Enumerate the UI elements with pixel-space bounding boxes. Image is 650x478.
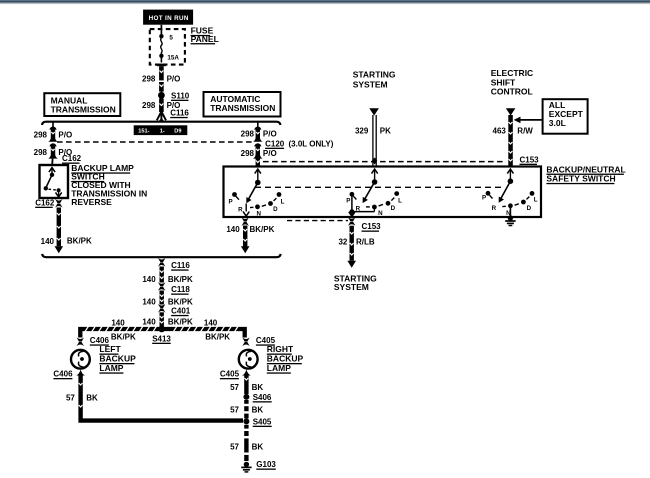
svg-text:P: P bbox=[482, 195, 486, 202]
svg-text:N: N bbox=[256, 210, 261, 217]
wire 140 BK/PK seg1 bbox=[160, 267, 164, 283]
dashed line (connector boundary, middle) bbox=[263, 161, 506, 163]
wire 140 BK/PK (left, switch to bus) bbox=[57, 208, 61, 247]
switch 3 position labels P R N D L bbox=[482, 195, 538, 217]
wire 140 BK/PK seg2 bbox=[160, 291, 164, 305]
switch gang 1 (left, backup lamp feed) bbox=[232, 169, 281, 216]
svg-text:PANEL: PANEL bbox=[191, 34, 219, 44]
svg-text:S110: S110 bbox=[171, 91, 190, 100]
svg-text:TRANSMISSION: TRANSMISSION bbox=[210, 103, 275, 113]
node STARTING SYSTEM (bottom) bbox=[334, 274, 377, 293]
svg-text:C153: C153 bbox=[362, 222, 382, 231]
svg-text:SYSTEM: SYSTEM bbox=[353, 80, 388, 90]
bus wire (lower) bbox=[42, 254, 280, 257]
svg-text:5: 5 bbox=[169, 34, 173, 41]
svg-text:S406: S406 bbox=[253, 393, 272, 402]
svg-text:BK/PK: BK/PK bbox=[111, 333, 136, 342]
arrow from ALL EXCEPT box to wire bbox=[514, 117, 543, 124]
svg-text:N: N bbox=[378, 210, 383, 217]
splice S110 bbox=[158, 91, 190, 101]
wire 140 BK/PK down to bus bbox=[241, 226, 250, 254]
svg-text:140: 140 bbox=[142, 298, 156, 307]
value label 57 BK bbox=[230, 383, 263, 392]
connector C401 bbox=[158, 304, 191, 316]
connector C162 (inline) bbox=[48, 143, 57, 165]
mechanical linkage dashed line bbox=[255, 186, 503, 188]
connector C116 (top) bbox=[157, 109, 190, 122]
left backup lamp bbox=[71, 350, 90, 369]
value label 298 P/O (upper) bbox=[142, 74, 180, 83]
svg-text:329: 329 bbox=[355, 126, 369, 135]
svg-text:LEFT: LEFT bbox=[99, 344, 121, 354]
ground G103 bbox=[241, 460, 276, 472]
svg-text:S405: S405 bbox=[253, 417, 272, 426]
svg-text:L: L bbox=[281, 198, 285, 205]
wire 298 P/O left drop from bus bbox=[48, 122, 57, 142]
svg-text:C162: C162 bbox=[35, 198, 55, 207]
value label 298 P/O (lower) bbox=[142, 101, 180, 110]
svg-text:R: R bbox=[356, 206, 361, 213]
connector C153 (middle output) bbox=[348, 217, 381, 232]
value label 140 BK/PK bbox=[142, 317, 193, 326]
connector C162 (below switch) bbox=[35, 198, 62, 208]
svg-text:P/O: P/O bbox=[263, 129, 277, 138]
connector C120 bbox=[253, 139, 334, 158]
fuse output node bbox=[159, 54, 163, 63]
switch gang 3 (right, electric shift control) bbox=[486, 169, 535, 217]
value label 140 BK/PK bbox=[142, 275, 193, 284]
svg-text:TRANSMISSION: TRANSMISSION bbox=[51, 105, 116, 115]
svg-text:D: D bbox=[273, 206, 278, 213]
svg-text:R: R bbox=[492, 205, 497, 212]
node ELECTRIC SHIFT CONTROL bbox=[491, 68, 534, 115]
value label 57 BK (left) bbox=[66, 393, 98, 402]
svg-text:140: 140 bbox=[226, 225, 240, 234]
title bar remnant bbox=[0, 0, 650, 5]
svg-text:C118: C118 bbox=[171, 285, 190, 294]
wire from HOT IN RUN to fuse bbox=[160, 25, 162, 35]
svg-text:1-: 1- bbox=[160, 129, 165, 135]
svg-text:R/LB: R/LB bbox=[356, 237, 375, 246]
wire 463 R/W bbox=[508, 115, 513, 167]
wire 298 P/O from fuse to splice S110 bbox=[157, 64, 166, 95]
backup/neutral safety switch label bbox=[546, 164, 625, 184]
switch 1 position labels P R N D L bbox=[229, 198, 285, 217]
value label 32 R/LB bbox=[338, 237, 374, 246]
fuse panel (dashed box) bbox=[150, 29, 185, 65]
value label 329 PK bbox=[355, 126, 391, 135]
connector C406 (top of left lamp) bbox=[77, 336, 110, 346]
svg-text:298: 298 bbox=[34, 131, 48, 140]
box MANUAL TRANSMISSION bbox=[44, 93, 120, 116]
value label 140 BK/PK (switch output) bbox=[226, 225, 274, 234]
ground (safety switch case) bbox=[505, 215, 515, 225]
svg-text:RIGHT: RIGHT bbox=[267, 344, 294, 354]
svg-text:S413: S413 bbox=[152, 334, 171, 343]
switch 2 position labels P R N D L bbox=[346, 198, 402, 217]
connector C118 bbox=[158, 282, 190, 295]
wire 140 BK/PK seg3 bbox=[160, 312, 164, 327]
value label 298 P/O (left lower) bbox=[34, 148, 73, 157]
value label 140 (left branch) bbox=[111, 318, 136, 341]
svg-text:BK/PK: BK/PK bbox=[168, 298, 193, 307]
value label 298 P/O (right lower) bbox=[241, 149, 277, 158]
splice S406 bbox=[243, 393, 272, 403]
svg-text:SAFETY SWITCH: SAFETY SWITCH bbox=[546, 174, 615, 184]
svg-text:D: D bbox=[527, 205, 532, 212]
wire 57 BK (left lamp to splice S405) bbox=[79, 375, 243, 421]
svg-text:140: 140 bbox=[41, 237, 55, 246]
circuit id box 151-1-D9 bbox=[134, 125, 188, 135]
svg-text:298: 298 bbox=[34, 148, 48, 157]
svg-text:(3.0L ONLY): (3.0L ONLY) bbox=[289, 139, 334, 148]
svg-text:BK/PK: BK/PK bbox=[250, 225, 275, 234]
svg-text:463: 463 bbox=[493, 126, 507, 135]
svg-text:R: R bbox=[238, 207, 243, 214]
svg-text:3.0L: 3.0L bbox=[549, 118, 566, 128]
connector C405 (bottom of right lamp) bbox=[220, 370, 251, 380]
wire (hatched distribution to both lamps) bbox=[80, 326, 244, 337]
wire 57 BK (S406 to S405, segmented) bbox=[243, 400, 249, 418]
svg-text:140: 140 bbox=[142, 275, 156, 284]
wire 57 BK (S405 to ground, segmented) bbox=[243, 425, 249, 461]
svg-text:140: 140 bbox=[111, 318, 125, 327]
svg-text:15A: 15A bbox=[167, 54, 179, 61]
svg-text:BK/PK: BK/PK bbox=[168, 275, 193, 284]
svg-text:32: 32 bbox=[338, 237, 347, 246]
svg-text:L: L bbox=[534, 197, 538, 204]
svg-text:C405: C405 bbox=[220, 370, 240, 379]
connector (switch1 output) bbox=[242, 217, 249, 226]
svg-text:D: D bbox=[391, 205, 396, 212]
value label 298 P/O (right upper) bbox=[241, 129, 277, 138]
svg-text:G103: G103 bbox=[256, 460, 276, 469]
svg-text:LAMP: LAMP bbox=[99, 363, 123, 373]
svg-text:BK/PK: BK/PK bbox=[67, 237, 92, 246]
svg-text:BK: BK bbox=[252, 442, 264, 451]
svg-text:298: 298 bbox=[241, 149, 255, 158]
svg-text:57: 57 bbox=[230, 383, 239, 392]
fuse pin 5 node bbox=[159, 34, 173, 41]
connector C116 (lower chain) bbox=[158, 258, 190, 271]
svg-text:L: L bbox=[398, 198, 402, 205]
svg-text:PK: PK bbox=[380, 126, 391, 135]
svg-text:140: 140 bbox=[204, 318, 218, 327]
svg-text:BK: BK bbox=[252, 405, 264, 414]
svg-text:C120: C120 bbox=[265, 139, 285, 148]
splice S413 bbox=[152, 326, 171, 344]
svg-text:P/O: P/O bbox=[58, 131, 72, 140]
backup lamp switch label bbox=[71, 163, 147, 207]
power source HOT IN RUN bbox=[143, 10, 193, 25]
backup/neutral safety switch box bbox=[224, 167, 542, 218]
svg-text:P/O: P/O bbox=[167, 74, 181, 83]
svg-text:P: P bbox=[229, 199, 233, 206]
svg-text:57: 57 bbox=[66, 393, 75, 402]
splice S405 bbox=[243, 417, 272, 427]
wire 32 R/LB bbox=[347, 226, 356, 268]
switch gang 2 (middle, starting system) bbox=[349, 169, 399, 216]
right backup lamp label bbox=[267, 344, 304, 373]
svg-text:C401: C401 bbox=[171, 307, 191, 316]
svg-text:SYSTEM: SYSTEM bbox=[334, 282, 369, 292]
wire 57 BK (right lamp to S406) bbox=[244, 375, 248, 395]
svg-text:298: 298 bbox=[142, 101, 156, 110]
connector label C162 bbox=[62, 154, 82, 164]
svg-text:57: 57 bbox=[230, 442, 239, 451]
box AUTOMATIC TRANSMISSION bbox=[204, 92, 281, 117]
backup lamp switch box bbox=[40, 165, 69, 198]
backup lamp switch contacts bbox=[44, 168, 62, 197]
wire 298 P/O from S110 to C116 bbox=[159, 99, 164, 113]
node STARTING SYSTEM (top) bbox=[353, 69, 396, 115]
fuse panel label bbox=[191, 26, 219, 45]
wire 298 P/O right drop from bus bbox=[253, 122, 262, 142]
svg-text:LAMP: LAMP bbox=[267, 363, 291, 373]
value label 463 R/W bbox=[493, 126, 534, 135]
box ALL EXCEPT 3.0L bbox=[543, 99, 588, 134]
wire 298 P/O to safety switch bbox=[256, 158, 260, 167]
svg-text:C153: C153 bbox=[520, 155, 540, 164]
svg-text:STARTING: STARTING bbox=[353, 69, 396, 79]
connector C405 (top of right lamp) bbox=[242, 336, 275, 346]
svg-text:57: 57 bbox=[230, 405, 239, 414]
svg-text:REVERSE: REVERSE bbox=[71, 197, 112, 207]
svg-text:C116: C116 bbox=[170, 109, 189, 118]
svg-text:BK: BK bbox=[86, 393, 98, 402]
dashed line (3.0L option boundary, left) bbox=[57, 141, 254, 143]
wire 329 PK bbox=[372, 115, 377, 167]
svg-text:C116: C116 bbox=[171, 261, 190, 270]
connector C406 (bottom of left lamp) bbox=[53, 370, 85, 380]
svg-text:R/W: R/W bbox=[517, 126, 533, 135]
svg-text:C406: C406 bbox=[53, 370, 73, 379]
svg-text:BK/PK: BK/PK bbox=[205, 333, 230, 342]
connector label C153 (upper) bbox=[520, 155, 540, 165]
svg-text:D9: D9 bbox=[174, 129, 181, 135]
svg-text:298: 298 bbox=[241, 129, 255, 138]
svg-text:HOT IN RUN: HOT IN RUN bbox=[149, 15, 189, 22]
fuse element 15A bbox=[161, 38, 180, 61]
right backup lamp bbox=[239, 350, 258, 369]
svg-text:151-: 151- bbox=[138, 129, 149, 135]
svg-text:C162: C162 bbox=[62, 154, 82, 163]
value label 57 BK bbox=[230, 442, 263, 451]
svg-text:BK/PK: BK/PK bbox=[168, 317, 193, 326]
value label 140 BK/PK bbox=[142, 298, 193, 307]
svg-text:CONTROL: CONTROL bbox=[491, 87, 533, 97]
value label 298 P/O (left upper) bbox=[34, 131, 73, 140]
left backup lamp label bbox=[99, 344, 136, 373]
svg-text:P: P bbox=[346, 198, 350, 205]
svg-text:298: 298 bbox=[142, 74, 156, 83]
svg-text:140: 140 bbox=[142, 317, 156, 326]
svg-text:BK: BK bbox=[252, 383, 264, 392]
arrow into lower bus bbox=[55, 246, 64, 253]
value label 140 (right branch) bbox=[204, 318, 230, 341]
value label 57 BK bbox=[230, 405, 263, 414]
value label 140 BK/PK (left) bbox=[41, 237, 92, 247]
dashed line (below box, left of C153) bbox=[287, 220, 348, 222]
svg-text:P/O: P/O bbox=[263, 149, 277, 158]
bus wire (upper) bbox=[42, 122, 280, 125]
